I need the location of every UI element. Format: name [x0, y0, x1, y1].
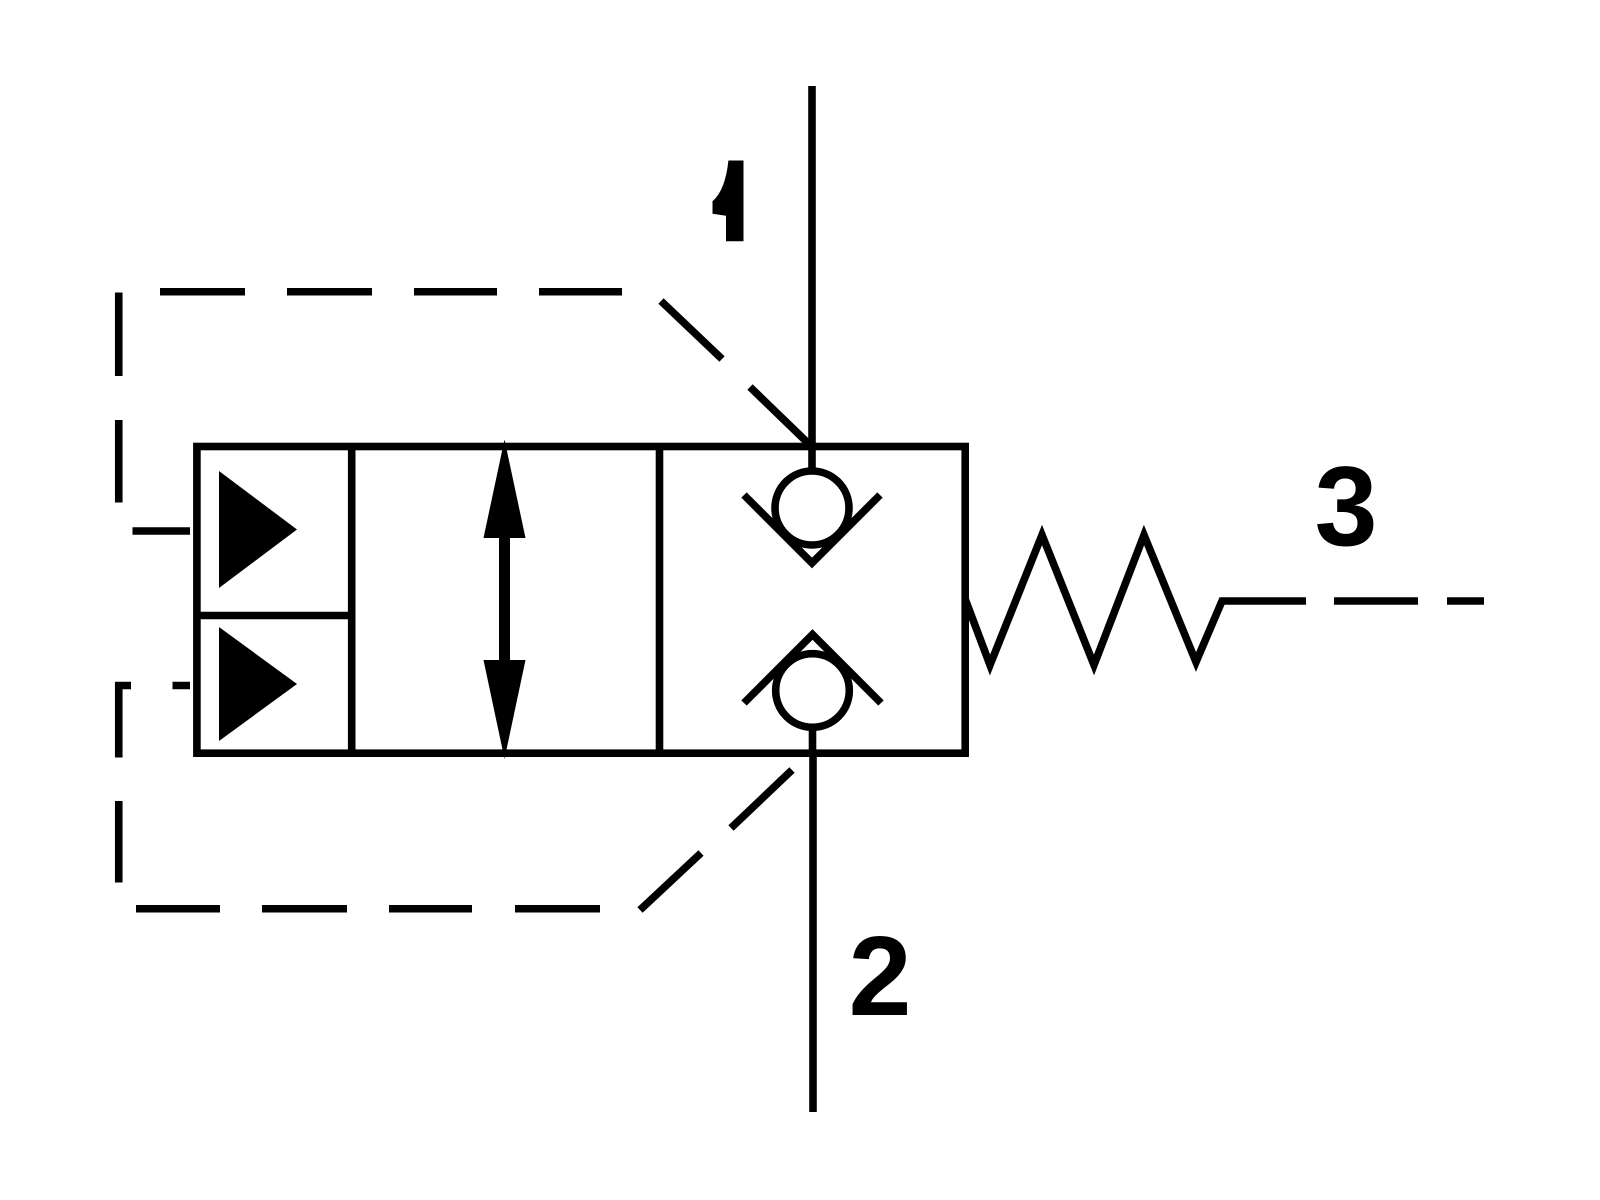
port label 1 — [713, 161, 744, 242]
valve body outer box — [197, 447, 965, 754]
check valve bottom ball — [776, 654, 850, 728]
pilot triangle lower — [219, 627, 297, 741]
pilot section vertical divider — [348, 447, 356, 754]
wire pilot dashed line from port 1 to upper pilot — [119, 292, 811, 531]
spring — [966, 535, 1307, 665]
double-headed arrow shaft — [499, 534, 510, 664]
middle/right section divider — [656, 447, 664, 754]
wire pilot dashed line from port 2 to lower pilot — [119, 686, 792, 911]
check valve bottom seat — [744, 635, 881, 704]
wire port 2 vertical line — [809, 751, 817, 1112]
wire port 3 dashed line — [1334, 597, 1484, 605]
check valve bottom stub wire — [809, 725, 817, 753]
pilot triangle upper — [219, 471, 297, 588]
svg-text:2: 2 — [849, 913, 912, 1039]
arrowhead up — [484, 440, 526, 539]
check valve top ball — [775, 471, 849, 545]
check valve top stub wire — [808, 447, 816, 472]
check valve top seat V — [744, 495, 880, 563]
arrowhead down — [484, 660, 526, 759]
pilot boxes horizontal divider — [197, 612, 352, 620]
wire port 1 vertical line — [808, 86, 816, 450]
svg-text:3: 3 — [1315, 443, 1378, 569]
